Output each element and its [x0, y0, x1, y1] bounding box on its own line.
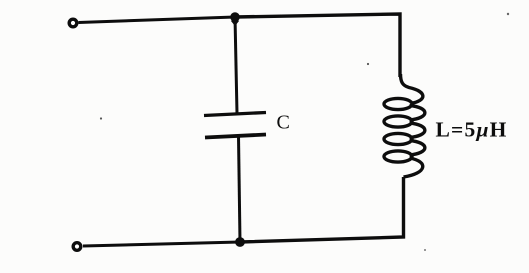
- capacitor C top plate: [204, 113, 266, 116]
- inductor L1 coil top hook: [401, 74, 423, 104]
- wire node A down to capacitor top plate: [235, 17, 237, 114]
- inductor L1 bottom hook: [404, 158, 423, 177]
- inductor L1 turn 3: [384, 133, 412, 144]
- wire capacitor bottom plate down to node B: [239, 136, 241, 242]
- terminal top-left: [69, 19, 77, 27]
- capacitor C bottom plate: [205, 135, 266, 138]
- inductor L1 connector 1-2: [410, 106, 425, 121]
- inductor L1 turn 1: [384, 98, 412, 109]
- scan speck near capacitor: [100, 117, 102, 119]
- scan speck left of coil: [367, 63, 369, 65]
- node A junction dot: [230, 12, 240, 26]
- scan speck top-right: [507, 13, 509, 15]
- wire top-left terminal to node A: [79, 17, 236, 23]
- scan speck bottom-right: [424, 249, 426, 251]
- inductor L1 turn 2: [384, 116, 412, 127]
- terminal bottom-left: [73, 243, 81, 251]
- node B junction dot: [235, 237, 245, 247]
- wire inductor bottom to bottom-right corner: [240, 177, 404, 242]
- inductor L1 turn 4: [384, 151, 412, 162]
- inductor L1 connector 2-3: [410, 123, 425, 138]
- inductor L1 connector 3-4: [410, 141, 425, 156]
- wire node B to bottom-left terminal: [83, 242, 240, 246]
- svg-text:L=5μH: L=5μH: [436, 118, 508, 142]
- svg-text:C: C: [277, 112, 290, 134]
- wire node A to top-right corner: [235, 14, 400, 77]
